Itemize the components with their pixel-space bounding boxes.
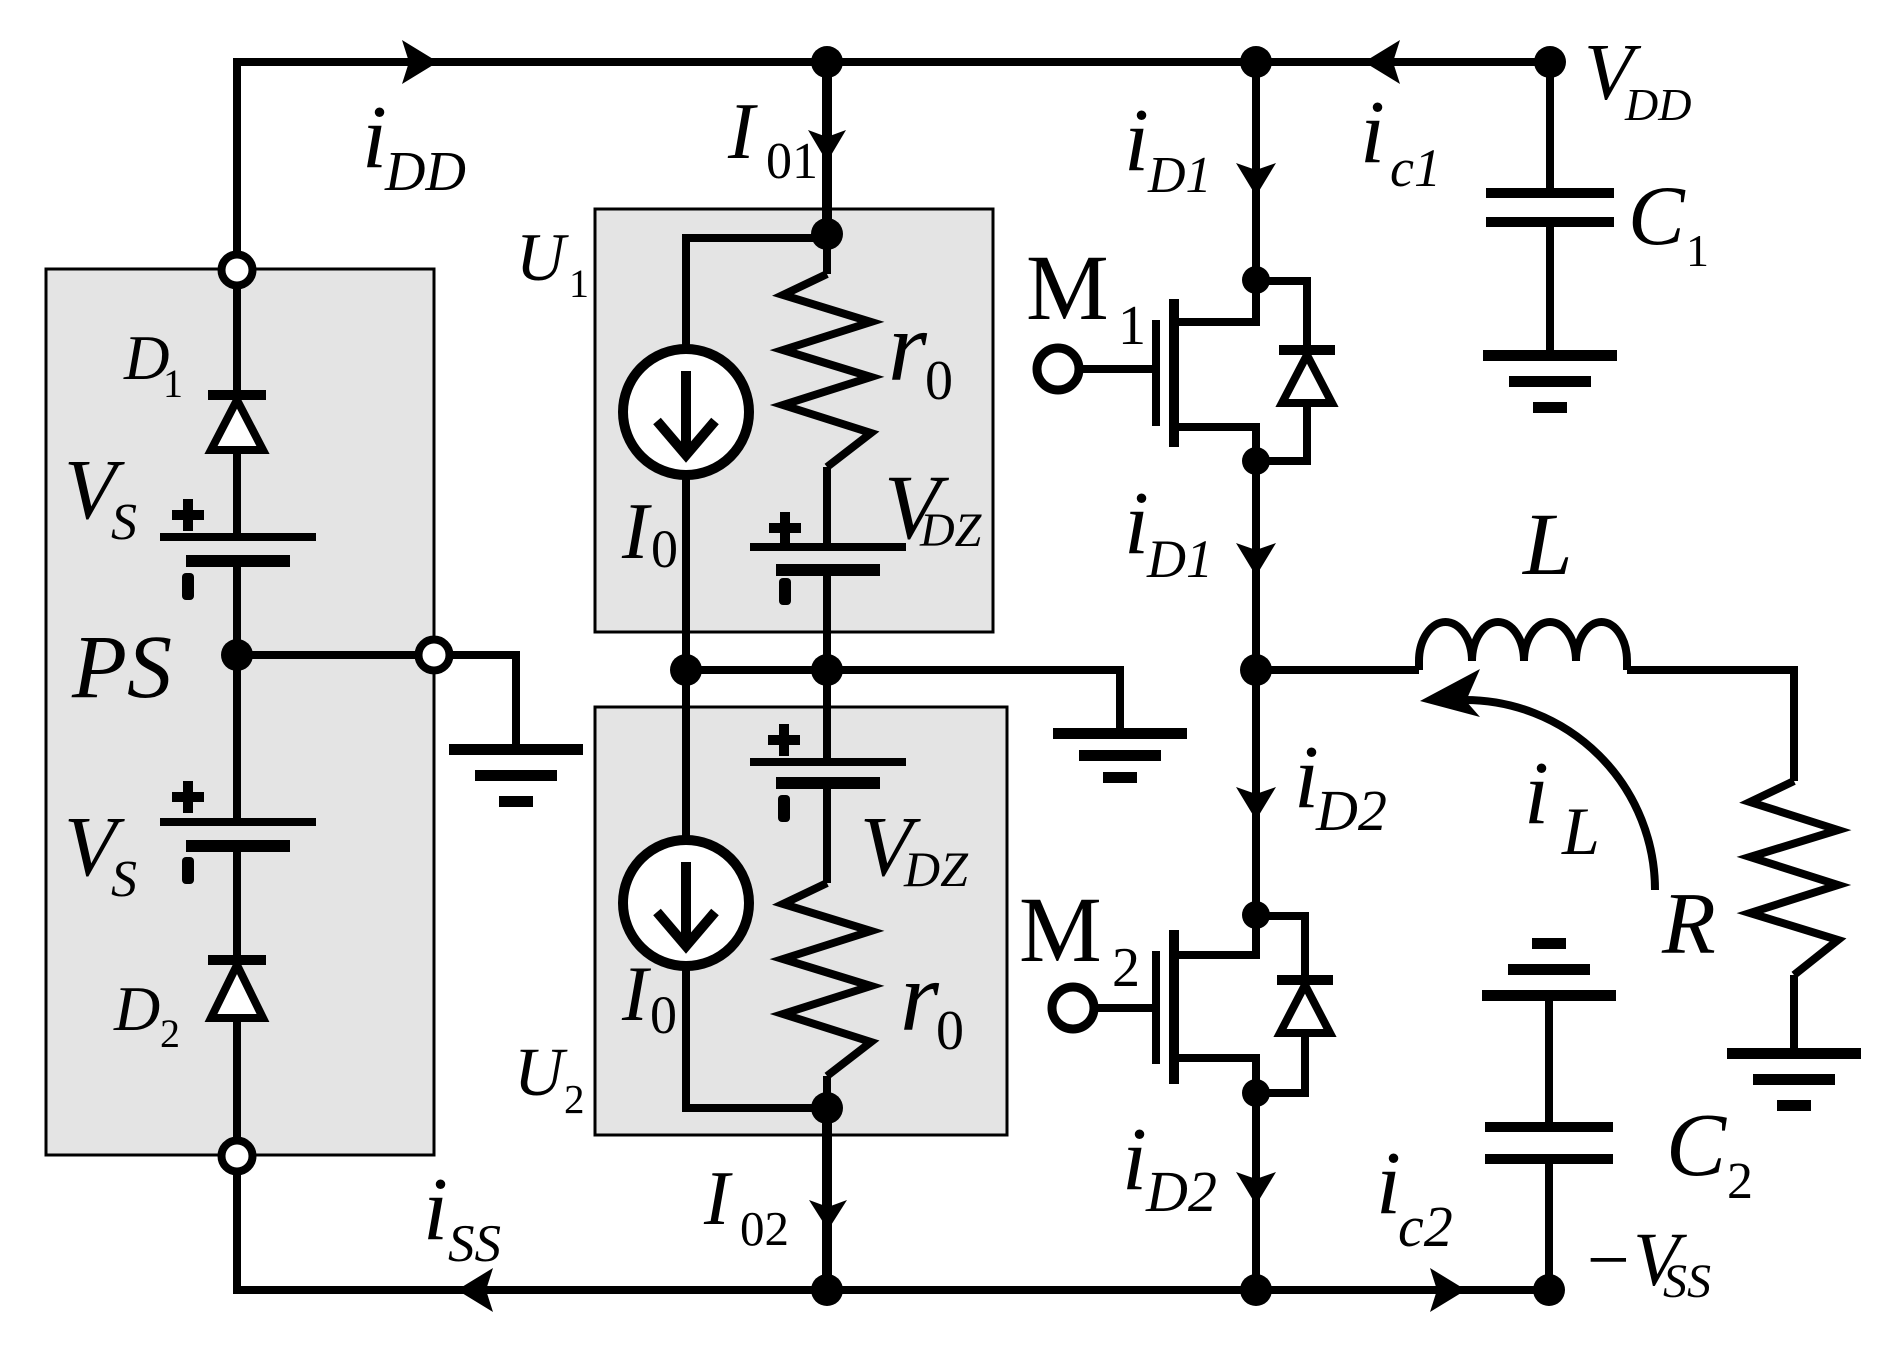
wire I02 from U2 to bottom rail bbox=[822, 1108, 832, 1290]
node output (L junction) bbox=[1240, 654, 1272, 686]
node M2 drain bbox=[1242, 901, 1270, 929]
junction bottom rail / M2 source branch bbox=[1240, 1274, 1272, 1306]
wire C2 to bottom rail (-VSS) bbox=[1545, 1164, 1553, 1290]
label current iL bbox=[1524, 744, 1600, 869]
label current iD2 (lower) bbox=[1122, 1110, 1217, 1224]
label resistor r0 (U2) bbox=[900, 941, 964, 1062]
wire M1 source stub bbox=[1174, 427, 1256, 461]
label source VDZ (U1) bbox=[884, 456, 983, 558]
svg-text:DZ: DZ bbox=[919, 504, 983, 557]
resistor r0 (U2) bbox=[783, 883, 871, 1076]
junction mid rail at I0 branch bbox=[670, 654, 702, 686]
wire D2 to PS bottom terminal bbox=[233, 1018, 241, 1137]
label supply -VSS bbox=[1582, 1218, 1711, 1308]
arrow iD1 bottom downward bbox=[1236, 543, 1276, 576]
svg-text:SS: SS bbox=[448, 1215, 501, 1273]
wire iD1 from top rail to M1 drain node bbox=[1252, 62, 1260, 280]
wire PS top terminal to D1 bbox=[233, 289, 241, 390]
junction top rail / VDD C1 node bbox=[1534, 46, 1566, 78]
label resistor R value bbox=[1661, 876, 1716, 973]
node PS midpoint bbox=[221, 639, 253, 671]
label source VS (lower) bbox=[64, 798, 137, 908]
wire M2 source stub bbox=[1174, 1058, 1256, 1093]
arrow iD2 top downward bbox=[1236, 787, 1276, 820]
wire PS node down to VS battery 2 bbox=[233, 655, 241, 818]
svg-text:I: I bbox=[727, 88, 758, 176]
svg-text:c2: c2 bbox=[1398, 1194, 1453, 1259]
label current I01 bbox=[727, 88, 818, 190]
terminal PS mid bbox=[419, 640, 450, 671]
svg-text:0: 0 bbox=[925, 350, 953, 412]
svg-text:M: M bbox=[1019, 879, 1102, 982]
wire mid rail into VDZ battery (U2) bbox=[823, 670, 831, 758]
voltage source VS (upper) bbox=[160, 499, 316, 600]
arrowhead iL (pointing left) bbox=[1420, 669, 1480, 717]
svg-text:SS: SS bbox=[1663, 1255, 1711, 1308]
wire PS bottom terminal to bottom rail bbox=[233, 1175, 241, 1294]
resistor r0 (U1) bbox=[783, 274, 871, 467]
M1 gate bar bbox=[1152, 320, 1160, 426]
ground symbol 3 (C1) bbox=[1483, 350, 1617, 413]
wire inverted ground to C2 bbox=[1545, 1000, 1553, 1122]
terminal PS top bbox=[222, 255, 253, 286]
svg-text:DD: DD bbox=[384, 141, 466, 203]
label source VS (upper) bbox=[64, 441, 137, 551]
node M1 source bbox=[1242, 447, 1270, 475]
wire M1 gate lead bbox=[1079, 365, 1152, 373]
wire PS node to mid terminal bbox=[237, 651, 415, 659]
svg-text:r: r bbox=[900, 941, 940, 1052]
svg-text:2: 2 bbox=[1112, 937, 1140, 999]
junction top rail / I01 branch bbox=[811, 46, 843, 78]
label transistor M1 bbox=[1026, 237, 1146, 357]
wire iD1 from M1 source to output node bbox=[1252, 461, 1260, 670]
inductor L bbox=[1419, 622, 1627, 670]
svg-text:0: 0 bbox=[936, 1000, 964, 1062]
svg-text:DD: DD bbox=[1624, 79, 1691, 130]
svg-text:i: i bbox=[1122, 1110, 1147, 1209]
junction top rail / M1 drain branch bbox=[1240, 46, 1272, 78]
svg-text:1: 1 bbox=[1118, 295, 1146, 357]
capacitor C2 bbox=[1485, 1122, 1613, 1164]
ground symbol 5 inverted (C2 top) bbox=[1482, 938, 1616, 1001]
PS source block box bbox=[46, 269, 434, 1155]
label current iD1 (lower) bbox=[1124, 474, 1213, 589]
voltage source VS (lower) bbox=[160, 781, 316, 884]
svg-text:2: 2 bbox=[1727, 1153, 1753, 1210]
svg-text:1: 1 bbox=[163, 361, 183, 406]
diode D2 bbox=[208, 955, 266, 1018]
U1 gate-drive model box bbox=[595, 209, 993, 632]
label inductor L value bbox=[1521, 496, 1573, 594]
current source I0 (U2) bbox=[623, 840, 749, 966]
capacitor C1 bbox=[1486, 188, 1614, 227]
svg-text:i: i bbox=[423, 1160, 448, 1259]
svg-text:U: U bbox=[516, 219, 569, 295]
arrow ic1 on top rail (pointing left) bbox=[1364, 40, 1400, 84]
wire iD2 from M2 source to bottom rail bbox=[1252, 1093, 1260, 1290]
arrow iDD on top rail bbox=[402, 40, 438, 84]
arrow I02 downward bbox=[809, 1200, 847, 1230]
label current iSS bbox=[423, 1160, 501, 1273]
wire VS1 to PS node bbox=[233, 567, 241, 655]
svg-text:S: S bbox=[111, 494, 137, 551]
arc current iL indicator bbox=[1464, 700, 1655, 890]
label source VDZ (U2) bbox=[860, 798, 969, 897]
arrow iSS on bottom rail (pointing left) bbox=[457, 1268, 493, 1312]
wire M2 body diode branch bbox=[1256, 916, 1305, 1093]
label current ic2 bbox=[1376, 1134, 1453, 1259]
svg-text:DZ: DZ bbox=[903, 841, 969, 897]
wire I01 from top rail into U1 bbox=[822, 62, 832, 234]
current source I0 (U1) bbox=[623, 349, 749, 475]
arrow iD2 bottom downward bbox=[1236, 1172, 1276, 1205]
svg-text:0: 0 bbox=[651, 519, 678, 579]
svg-text:i: i bbox=[1124, 474, 1149, 573]
label current iD2 (upper) bbox=[1294, 728, 1387, 843]
svg-text:r: r bbox=[888, 291, 928, 402]
junction bottom rail / -VSS C2 node bbox=[1533, 1274, 1565, 1306]
gate terminal circle M1 bbox=[1037, 348, 1079, 390]
svg-text:1: 1 bbox=[1686, 225, 1709, 276]
junction bottom rail / I02 branch bbox=[811, 1274, 843, 1306]
voltage source VDZ (U1) bbox=[750, 512, 906, 605]
wire top rail VDD bbox=[233, 58, 1550, 66]
diode D1 bbox=[208, 390, 266, 450]
label node PS bbox=[71, 618, 172, 717]
svg-text:0: 0 bbox=[650, 985, 677, 1045]
label current iDD bbox=[362, 88, 466, 203]
label diode D2 bbox=[113, 973, 180, 1056]
svg-text:L: L bbox=[1521, 496, 1573, 594]
wire r0 (U1) top stub bbox=[823, 234, 831, 274]
wire mid rail (U1/U2 common) to ground 2 bbox=[686, 670, 1120, 729]
svg-text:D2: D2 bbox=[1145, 1159, 1217, 1224]
label current iD1 (upper) bbox=[1124, 91, 1212, 204]
gate terminal circle M2 bbox=[1052, 987, 1094, 1029]
wire r0 (U2) to U2 bottom node bbox=[823, 1076, 831, 1108]
wire U1 top node to current source I0 bbox=[686, 238, 827, 351]
wire C1 to ground 3 bbox=[1546, 227, 1554, 351]
svg-text:02: 02 bbox=[740, 1201, 789, 1256]
label diode D1 bbox=[123, 323, 183, 406]
wire M2 gate lead bbox=[1094, 1004, 1152, 1012]
wire VDD rail down to PS top terminal bbox=[233, 58, 241, 251]
ground symbol 2 (mid rail) bbox=[1053, 728, 1187, 783]
junction U2 bottom node bbox=[811, 1092, 843, 1124]
junction U1 top node bbox=[811, 218, 843, 250]
svg-text:I: I bbox=[621, 488, 652, 576]
svg-text:i: i bbox=[1524, 744, 1549, 843]
junction mid rail at r0 branch bbox=[811, 654, 843, 686]
svg-text:D1: D1 bbox=[1147, 147, 1212, 204]
svg-text:D1: D1 bbox=[1146, 529, 1213, 589]
label block U2 bbox=[514, 1034, 585, 1122]
svg-text:C: C bbox=[1628, 169, 1686, 263]
wire mid terminal to ground 1 bbox=[453, 655, 516, 745]
svg-text:PS: PS bbox=[71, 618, 172, 717]
svg-text:D2: D2 bbox=[1315, 778, 1387, 843]
label current ic1 bbox=[1360, 83, 1441, 198]
svg-text:M: M bbox=[1026, 237, 1109, 340]
resistor R bbox=[1750, 781, 1838, 975]
label source I0 (U1) bbox=[621, 488, 678, 579]
label block U1 bbox=[516, 219, 589, 306]
node M1 drain bbox=[1242, 266, 1270, 294]
svg-text:i: i bbox=[1360, 83, 1385, 182]
svg-text:U: U bbox=[514, 1034, 568, 1110]
svg-text:i: i bbox=[362, 88, 387, 187]
M2 gate bar bbox=[1152, 951, 1160, 1064]
wire VDD node down to C1 bbox=[1546, 62, 1554, 188]
wire M1 drain stub bbox=[1174, 284, 1256, 322]
wire M2 drain stub bbox=[1174, 919, 1256, 955]
svg-text:2: 2 bbox=[160, 1011, 180, 1056]
wire bottom rail -VSS bbox=[233, 1286, 1549, 1294]
svg-text:R: R bbox=[1661, 876, 1716, 973]
body diode of M1 bbox=[1279, 345, 1335, 403]
ground symbol 4 (R) bbox=[1727, 1048, 1861, 1111]
wire output node to inductor L bbox=[1256, 666, 1419, 674]
svg-text:I: I bbox=[703, 1155, 733, 1241]
svg-text:C: C bbox=[1666, 1096, 1727, 1195]
svg-text:S: S bbox=[111, 851, 137, 908]
wire VS2 to D2 bbox=[233, 852, 241, 955]
label resistor r0 (U1) bbox=[888, 291, 953, 412]
wire r0 (U1) to VDZ battery bbox=[823, 467, 831, 544]
svg-text:01: 01 bbox=[766, 133, 818, 190]
label capacitor C1 value bbox=[1628, 169, 1709, 276]
label transistor M2 bbox=[1019, 879, 1140, 999]
wire R to ground 4 bbox=[1790, 975, 1798, 1048]
wire inductor to resistor R bbox=[1627, 670, 1794, 781]
terminal PS bottom bbox=[222, 1141, 253, 1172]
label supply VDD bbox=[1584, 27, 1691, 130]
wire VDZ (U1) to mid rail bbox=[823, 576, 831, 670]
wire D1 to VS battery 1 bbox=[233, 450, 241, 533]
body diode of M2 bbox=[1277, 975, 1333, 1033]
wire VDZ (U2) to r0 (U2) bbox=[823, 789, 831, 883]
arrow I01 downward bbox=[808, 130, 846, 162]
svg-text:L: L bbox=[1561, 793, 1600, 869]
svg-text:1: 1 bbox=[569, 261, 589, 306]
svg-text:I: I bbox=[621, 950, 652, 1037]
arrow ic2 on bottom rail (pointing right) bbox=[1430, 1268, 1466, 1312]
label source I0 (U2) bbox=[621, 950, 677, 1045]
wire M1 body diode branch bbox=[1256, 281, 1307, 461]
label current I02 bbox=[703, 1155, 789, 1256]
svg-text:2: 2 bbox=[564, 1076, 585, 1122]
wire iD2 from output node to M2 drain bbox=[1252, 670, 1260, 915]
arrow iD1 top downward bbox=[1236, 163, 1276, 196]
wire I0 (U1) bottom to mid rail bbox=[682, 474, 690, 670]
transistor M2 channel bar bbox=[1169, 930, 1179, 1084]
svg-text:i: i bbox=[1124, 91, 1149, 190]
node M2 source bbox=[1242, 1079, 1270, 1107]
svg-text:D: D bbox=[113, 973, 160, 1044]
svg-text:c1: c1 bbox=[1390, 138, 1441, 198]
transistor M1 channel bar bbox=[1169, 299, 1179, 447]
wire I0 (U2) bottom to U2 bottom node bbox=[686, 965, 827, 1108]
ground symbol 1 (PS reference) bbox=[449, 744, 583, 807]
label capacitor C2 value bbox=[1666, 1096, 1753, 1210]
voltage source VDZ (U2) bbox=[750, 724, 906, 822]
wire mid rail down to current source I0 (U2) bbox=[682, 670, 690, 841]
U2 gate-drive model box bbox=[595, 707, 1007, 1135]
